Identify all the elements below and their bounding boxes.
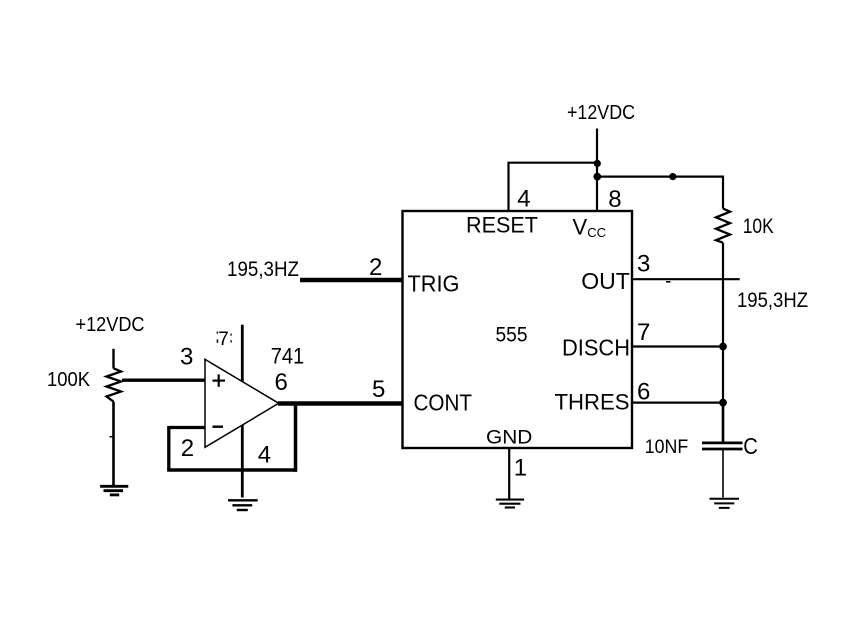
wire pin 8 stub [596,177,598,211]
svg-text:3: 3 [637,250,650,277]
svg-text:+12VDC: +12VDC [76,313,145,336]
ground (under 555) [496,500,524,508]
wire rail resistor to OUT [722,243,724,280]
svg-text:1: 1 [514,455,527,482]
svg-text:OUT: OUT [581,268,630,294]
tick artifact on OUT wire [666,281,671,283]
svg-text:195,3HZ: 195,3HZ [227,258,299,281]
wire DISCH pin 7 [632,345,723,347]
svg-text:DISCH: DISCH [562,335,630,361]
ground (right, under capacitor) [710,499,740,508]
wire capacitor to ground [722,449,724,498]
svg-text:10K: 10K [743,215,774,238]
svg-text:195,3HZ: 195,3HZ [737,289,808,312]
svg-text:7: 7 [637,319,650,346]
capacitor C1 10NF plates [702,443,743,449]
svg-text:7: 7 [218,329,229,350]
junction dot E [719,399,727,407]
resistor R2 100K [107,368,122,401]
svg-text:THRES: THRES [555,390,630,415]
IC U1 555 body [403,211,633,448]
op-amp - input symbol [213,426,224,428]
junction dot D [719,343,727,351]
wire resistor to ground [112,402,115,486]
svg-text:C: C [743,433,758,459]
feedback wire right vertical [294,404,298,472]
ground (under op-amp) [228,500,258,510]
svg-text:2: 2 [181,435,194,462]
wire rail DISCH to THRES [722,347,724,403]
feedback wire left vertical [167,426,170,470]
svg-text:2: 2 [369,254,382,281]
wire OUT pin 3 [632,278,740,280]
ground (left, under 100K) [100,486,128,495]
pin number 7 (smudged) [217,329,232,350]
svg-text:6: 6 [275,369,288,396]
svg-text:RESET: RESET [466,213,538,238]
wire from +12VDC down to junction [596,129,598,179]
wire op-amp supply vertical [241,325,244,498]
wire rail OUT to DISCH [722,279,724,346]
wire CONT from op-amp output [278,401,403,406]
wire resistor to op-amp + input [122,379,205,382]
svg-text:6: 6 [637,379,650,406]
wire THRES pin 6 [632,402,723,404]
feedback wire bottom [167,468,297,472]
svg-text:8: 8 [608,186,621,213]
wire THRES to capacitor [722,403,725,442]
wire left branch to pin 4 [509,163,598,211]
svg-text:+12VDC: +12VDC [567,101,635,124]
feedback wire top [169,426,205,429]
svg-text:100K: 100K [47,369,91,391]
op-amp U2 741 triangle [205,359,279,447]
junction dot A [594,160,601,167]
svg-text:555: 555 [496,324,528,347]
op-amp + input symbol [213,374,226,386]
wire +12VDC to resistor [112,349,114,369]
wire right branch to 10K rail [597,177,723,209]
wire GND pin 1 [508,448,510,499]
svg-text:10NF: 10NF [645,437,689,458]
resistor R1 10K [716,209,730,243]
svg-text:GND: GND [486,426,532,448]
svg-text:5: 5 [372,376,385,403]
svg-text:3: 3 [180,344,193,371]
svg-text:4: 4 [517,185,530,212]
svg-text:4: 4 [258,442,271,469]
junction dot B [593,173,601,181]
svg-text:741: 741 [271,343,305,368]
tick artifact on wire [110,436,115,438]
svg-text:TRIG: TRIG [408,271,460,297]
wire TRIG input [300,278,403,283]
svg-text:CONT: CONT [414,390,473,416]
junction dot C [669,173,676,180]
